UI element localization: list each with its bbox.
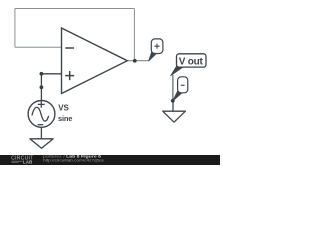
voltage source VS sine bbox=[28, 101, 55, 128]
op-amp U1 bbox=[62, 28, 128, 94]
svg-text:VS: VS bbox=[58, 104, 69, 113]
node C (output junction) bbox=[133, 59, 137, 63]
wire output bbox=[127, 60, 148, 62]
node D (right ground junction) bbox=[171, 99, 175, 103]
bottom bar bbox=[0, 155, 220, 165]
node A (plus input junction) bbox=[40, 72, 44, 76]
svg-text:http://circuitlab.com/c4z7q5ce: http://circuitlab.com/c4z7q5ce bbox=[43, 159, 104, 163]
wire feedback right vertical bbox=[133, 9, 135, 61]
wire VS bottom to ground bbox=[40, 127, 42, 139]
probe flag + (output) bbox=[149, 39, 163, 61]
ground (VS) bbox=[30, 139, 53, 148]
wire to non-inverting input bbox=[41, 73, 61, 75]
wire feedback top bbox=[15, 8, 134, 10]
node B (VS terminal junction) bbox=[40, 85, 44, 89]
wire to inverting input bbox=[15, 46, 62, 48]
svg-text:V out: V out bbox=[179, 56, 204, 67]
svg-text:sine: sine bbox=[58, 114, 72, 123]
wire right node to ground bbox=[172, 101, 174, 112]
svg-text:LAB: LAB bbox=[23, 160, 33, 165]
net label V out bbox=[171, 54, 206, 101]
wire plus input down to VS bbox=[40, 74, 42, 101]
ground (right) bbox=[163, 111, 186, 122]
probe flag - (right) bbox=[173, 77, 188, 101]
wire feedback left bbox=[14, 9, 16, 48]
